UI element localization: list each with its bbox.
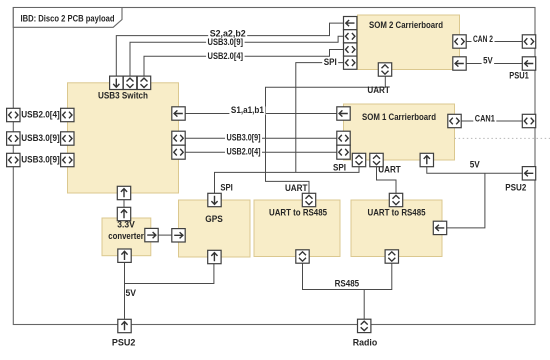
block SOM 2 Carrierboard bbox=[358, 15, 460, 70]
port SOM2 right 5V left-arrow bbox=[453, 57, 466, 70]
svg-text:5V: 5V bbox=[483, 55, 493, 65]
label 5V bottom left bbox=[126, 288, 137, 298]
svg-text:USB2.0[4]: USB2.0[4] bbox=[208, 51, 244, 61]
label UART below SOM2 bbox=[367, 85, 390, 95]
port RS485 no.2 top UART bbox=[389, 193, 402, 206]
svg-text:UART to RS485: UART to RS485 bbox=[269, 208, 327, 218]
label USB2.0[4] mid bbox=[225, 147, 262, 157]
label S2,a2,b2 bbox=[208, 29, 247, 39]
port frame Radio bbox=[358, 319, 371, 332]
port switch top 3 updown bbox=[137, 76, 150, 89]
port frame PSU1 bbox=[522, 57, 535, 70]
wire 5V net bottom left bbox=[125, 262, 214, 319]
port SOM1 bottom UART bbox=[370, 153, 383, 166]
port switch left 3 bbox=[61, 153, 74, 166]
wire 5V net SOM1 to PSU2 right bbox=[427, 167, 523, 174]
wire SPI net SOM2 branch bbox=[296, 63, 344, 173]
port SOM1 bottom SPI bbox=[352, 153, 365, 166]
wire USB3.0[9] top net bbox=[130, 36, 344, 76]
wire converter to GPS link bbox=[158, 234, 172, 236]
port switch bottom up bbox=[117, 186, 130, 199]
wire USB3 Switch to converter link bbox=[123, 200, 125, 208]
label PSU2 right bbox=[505, 183, 526, 193]
wire USB2.0[4] mid net bbox=[185, 151, 337, 153]
wire USB3.0[9] mid net bbox=[185, 137, 337, 139]
port switch left 1 bbox=[61, 108, 74, 121]
svg-text:SOM 1 Carrierboard: SOM 1 Carrierboard bbox=[362, 112, 436, 122]
port switch left 2 bbox=[61, 132, 74, 145]
label USB3.0[9] left 2 bbox=[20, 154, 62, 164]
wire RS485 net bbox=[303, 263, 392, 319]
port GPS top down bbox=[208, 193, 221, 206]
port RS485 no.1 top UART bbox=[302, 193, 315, 206]
svg-text:5V: 5V bbox=[470, 160, 480, 170]
block SOM 1 Carrierboard bbox=[344, 104, 455, 160]
port SOM2 bottom UART bbox=[378, 63, 391, 76]
label SPI at GPS bbox=[220, 182, 233, 192]
port switch top 1 down bbox=[110, 76, 123, 89]
port frame left USB3.0[9] b bbox=[7, 153, 20, 166]
block GPS bbox=[179, 200, 251, 257]
port GPS left right-arrow bbox=[172, 229, 185, 242]
svg-text:Radio: Radio bbox=[353, 337, 378, 347]
label USB3.0[9] top bbox=[206, 37, 245, 47]
svg-text:CAN1: CAN1 bbox=[475, 113, 495, 123]
port switch top 2 updown bbox=[123, 76, 136, 89]
svg-text:SOM 2 Carrierboard: SOM 2 Carrierboard bbox=[369, 20, 443, 30]
svg-text:IBD: Disco 2 PCB payload: IBD: Disco 2 PCB payload bbox=[21, 13, 115, 23]
wire CAN2 net bbox=[466, 41, 522, 43]
port switch right 3 bbox=[172, 145, 185, 159]
port frame PSU2 right bbox=[522, 167, 535, 180]
svg-text:S1,a1,b1: S1,a1,b1 bbox=[231, 105, 264, 115]
svg-text:PSU1: PSU1 bbox=[509, 70, 529, 80]
svg-text:PSU2: PSU2 bbox=[505, 183, 526, 193]
svg-text:UART: UART bbox=[367, 85, 390, 95]
svg-text:PSU2: PSU2 bbox=[112, 337, 136, 347]
wire CAN1 net bbox=[461, 120, 522, 122]
port SOM2 left 1 left-arrow bbox=[344, 17, 357, 30]
port frame CAN1 bbox=[522, 114, 535, 127]
wire UART net SOM1 to RS485 no.2 bbox=[377, 167, 397, 194]
wire SPI bus horizontal bbox=[215, 167, 360, 194]
port converter top up bbox=[117, 207, 130, 220]
svg-text:USB3.0[9]: USB3.0[9] bbox=[208, 37, 244, 47]
wire USB2.0[4] top net bbox=[144, 50, 344, 77]
label RS485 bbox=[335, 279, 360, 289]
svg-text:5V: 5V bbox=[126, 288, 137, 298]
block UART to RS485 no.2 bbox=[351, 200, 442, 257]
label PSU1 bbox=[509, 70, 529, 80]
port SOM1 left 3 bbox=[337, 145, 350, 159]
wire UART net SOM2 to RS485 no.1 bbox=[266, 76, 386, 193]
frame title tab bbox=[13, 8, 122, 28]
wire S1,a1,b1 net bbox=[185, 113, 337, 115]
wire S2,a2,b2 net bbox=[116, 23, 343, 76]
port SOM2 right CAN2 bbox=[453, 35, 466, 48]
label CAN 2 bbox=[472, 34, 495, 44]
wire 5V branch to RS485 no.2 bbox=[447, 173, 485, 228]
wire frame left to switch 1 bbox=[20, 114, 61, 116]
svg-text:USB3.0[9]: USB3.0[9] bbox=[21, 154, 60, 164]
label USB3.0[9] mid bbox=[225, 133, 262, 143]
svg-text:UART: UART bbox=[285, 183, 308, 193]
dotted line bbox=[455, 137, 550, 139]
port SOM2 left 4 SPI bbox=[344, 56, 357, 69]
port switch right 2 bbox=[172, 131, 185, 145]
svg-text:SPI: SPI bbox=[220, 182, 233, 192]
port frame left USB2.0[4] bbox=[7, 108, 20, 121]
label UART at SOM1 bbox=[378, 165, 401, 175]
label SPI at SOM2 bbox=[322, 57, 338, 67]
port SOM1 left 2 bbox=[337, 131, 350, 145]
label S1,a1,b1 bbox=[229, 105, 265, 115]
label 5V right bbox=[470, 160, 480, 170]
port RS485 no.1 bottom bbox=[296, 250, 309, 263]
port RS485 no.2 right left-arrow bbox=[433, 221, 446, 234]
port SOM1 right CAN1 bbox=[448, 114, 461, 127]
port SOM1 bottom 5V up bbox=[420, 153, 433, 166]
label UART above RS485 no.1 bbox=[285, 183, 308, 193]
svg-text:UART to RS485: UART to RS485 bbox=[368, 208, 426, 218]
svg-text:SPI: SPI bbox=[333, 162, 346, 172]
svg-text:USB3.0[9]: USB3.0[9] bbox=[227, 133, 261, 143]
wire frame left to switch 2 bbox=[20, 138, 61, 140]
port GPS bottom up bbox=[208, 250, 221, 263]
label PSU2 bottom bbox=[112, 337, 136, 347]
label USB2.0[4] left bbox=[20, 109, 62, 119]
port SOM1 left 1 left-arrow bbox=[337, 107, 350, 120]
svg-text:CAN 2: CAN 2 bbox=[473, 34, 493, 44]
block 3.3V converter bbox=[102, 218, 151, 256]
wire 5V net to PSU1 bbox=[466, 63, 522, 65]
port SOM2 left 2 bbox=[344, 30, 357, 43]
port frame CAN 2 bbox=[522, 35, 535, 48]
label Radio bbox=[353, 337, 378, 347]
svg-text:USB3.0[9]: USB3.0[9] bbox=[21, 133, 60, 143]
port RS485 no.2 bottom bbox=[385, 250, 398, 263]
label USB3.0[9] left 1 bbox=[20, 133, 62, 143]
label USB2.0[4] top bbox=[206, 51, 245, 61]
svg-text:converter: converter bbox=[108, 231, 144, 241]
label SPI at SOM1 bbox=[333, 162, 346, 172]
port converter right right-arrow bbox=[145, 228, 158, 241]
svg-text:USB3 Switch: USB3 Switch bbox=[98, 91, 148, 101]
port frame PSU2 bottom bbox=[118, 319, 131, 332]
label CAN1 bbox=[473, 113, 496, 123]
svg-text:GPS: GPS bbox=[205, 214, 223, 224]
label 5V at PSU1 bbox=[482, 55, 495, 65]
svg-text:USB2.0[4]: USB2.0[4] bbox=[21, 109, 60, 119]
port switch right 1 left-arrow bbox=[172, 107, 185, 120]
wire frame left to switch 3 bbox=[20, 159, 61, 161]
port frame left USB3.0[9] a bbox=[7, 132, 20, 145]
svg-text:SPI: SPI bbox=[324, 57, 337, 67]
block UART to RS485 no.1 bbox=[254, 200, 340, 257]
svg-text:RS485: RS485 bbox=[335, 279, 360, 289]
port SOM2 left 3 bbox=[344, 43, 357, 56]
svg-text:USB2.0[4]: USB2.0[4] bbox=[227, 147, 261, 157]
block USB3 Switch bbox=[68, 83, 179, 193]
port converter bottom up bbox=[118, 249, 131, 262]
